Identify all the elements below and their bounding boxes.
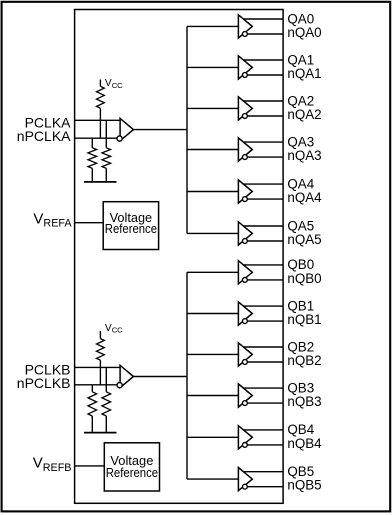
wire: VREFA to voltage reference A [75, 222, 104, 224]
wire: bus to driver QA1 [187, 66, 238, 68]
wire: QA0 true output [243, 18, 283, 20]
svg-text:nQA1: nQA1 [287, 66, 321, 81]
svg-text:nQB4: nQB4 [287, 436, 322, 451]
wire: bus to driver QA2 [187, 107, 238, 109]
output driver QB1 [238, 302, 252, 325]
output driver QB3 [238, 384, 252, 407]
svg-text:nQB0: nQB0 [287, 271, 321, 286]
wire: nQB0 inverted output [247, 279, 283, 281]
wire: QA1 true output [243, 59, 283, 61]
clock bus A [186, 26, 188, 233]
wire: nQA4 inverted output [247, 198, 283, 200]
wire: nQB3 inverted output [247, 402, 283, 404]
clock bus B [186, 272, 188, 479]
wire: nQA0 inverted output [247, 33, 283, 35]
wire: QA3 true output [243, 141, 283, 143]
output driver QA1 [238, 56, 252, 79]
wire: bus to driver QB0 [187, 271, 238, 273]
svg-text:nQA4: nQA4 [287, 190, 322, 205]
pull-up resistor (bank B) [97, 339, 105, 361]
output driver QA4 [238, 180, 252, 203]
wire: QB0 true output [243, 264, 283, 266]
inverting output bubble nQA1 [243, 73, 248, 78]
output driver QA2 [238, 97, 252, 120]
inverting output bubble nQB1 [243, 319, 248, 324]
inverting output bubble nQB4 [243, 443, 248, 448]
wire: QB3 true output [243, 387, 283, 389]
Vcc terminal (bank A) [99, 80, 101, 87]
wire: nQA1 inverted output [247, 74, 283, 76]
wire: left pull-down resistor to ground (bank A) [91, 168, 93, 182]
input buffer (bank A) [120, 118, 133, 140]
wire: bus to driver QA3 [187, 149, 238, 151]
inverting output bubble nQB3 [243, 401, 248, 406]
output driver QB5 [238, 468, 252, 491]
voltage reference block B [104, 443, 159, 491]
wire: bus to driver QA0 [187, 25, 238, 27]
wire: QA4 true output [243, 183, 283, 185]
wire: nQA3 inverted output [247, 156, 283, 158]
wire: nQB5 inverted output [247, 486, 283, 488]
inverting input bubble (bank B) [117, 383, 122, 388]
wire: pull-up resistor to n input line (bank A) [99, 108, 101, 138]
wire: bus to driver QA5 [187, 232, 238, 234]
wire: QB4 true output [243, 429, 283, 431]
wire: nPCLKA input line [75, 137, 118, 139]
ground (bank A) [84, 181, 117, 183]
pull-down resistor on PCLKB [102, 392, 111, 416]
inverting output bubble nQA5 [243, 239, 248, 244]
wire: nPCLKB input line [75, 384, 118, 386]
inverting input bubble (bank A) [117, 136, 122, 141]
wire: pull-up resistor to n input line (bank B) [99, 360, 101, 385]
wire: nPCLKB line down to pull-down resistor [91, 385, 93, 392]
wire: PCLKA line down to pull-down resistor [105, 120, 107, 148]
wire: bus to driver QB2 [187, 353, 238, 355]
wire: QA5 true output [243, 225, 283, 227]
wire: nQB4 inverted output [247, 444, 283, 446]
wire: VREFB to voltage reference B [75, 465, 105, 467]
svg-text:Reference: Reference [105, 221, 157, 236]
wire: QA2 true output [243, 100, 283, 102]
input buffer (bank B) [120, 365, 133, 387]
wire: nQB1 inverted output [247, 320, 283, 322]
wire: nPCLKA line down to pull-down resistor [91, 138, 93, 148]
wire: bus to driver QB1 [187, 313, 238, 315]
voltage reference block A [103, 202, 158, 250]
svg-text:nQB3: nQB3 [287, 394, 321, 409]
Vcc terminal (bank B) [99, 331, 101, 339]
wire: bus to driver QB3 [187, 395, 238, 397]
wire: right pull-down resistor to ground (bank A) [105, 168, 107, 182]
pull-down resistor on nPCLKA [88, 148, 97, 169]
svg-text:nQA0: nQA0 [287, 25, 321, 40]
svg-text:nQB1: nQB1 [287, 312, 321, 327]
svg-text:nPCLKA: nPCLKA [17, 128, 71, 144]
inverting output bubble nQA2 [243, 114, 248, 119]
pull-up resistor (bank A) [97, 86, 105, 108]
wire: nQB2 inverted output [247, 361, 283, 363]
wire: QB2 true output [243, 346, 283, 348]
wire: left pull-down resistor to ground (bank B) [91, 416, 93, 433]
inverting output bubble nQB2 [243, 360, 248, 365]
inverting output bubble nQA3 [243, 155, 248, 160]
wire: bus to driver QB5 [187, 478, 238, 480]
pull-down resistor on PCLKA [102, 148, 111, 169]
output driver QB4 [238, 426, 252, 449]
wire: nQA5 inverted output [247, 240, 283, 242]
wire: input buffer B output to clock bus B [133, 376, 187, 378]
svg-text:nQB5: nQB5 [287, 478, 321, 493]
wire: PCLKB input line [75, 366, 121, 368]
chip boundary box [75, 10, 284, 504]
output driver QB2 [238, 343, 252, 366]
svg-text:nQA2: nQA2 [287, 107, 321, 122]
wire: nQA2 inverted output [247, 115, 283, 117]
output driver QA3 [238, 138, 252, 161]
output driver QA0 [238, 15, 252, 38]
output driver QB0 [238, 261, 252, 284]
wire: bus to driver QA4 [187, 191, 238, 193]
svg-text:nQA5: nQA5 [287, 232, 321, 247]
svg-text:nQA3: nQA3 [287, 148, 321, 163]
wire: PCLKA input line [75, 119, 121, 121]
svg-text:Reference: Reference [106, 465, 158, 480]
wire: input buffer A output to clock bus A [133, 129, 187, 131]
wire: QB1 true output [243, 305, 283, 307]
output driver QA5 [238, 222, 252, 245]
inverting output bubble nQB5 [243, 484, 248, 489]
wire: PCLKB line down to pull-down resistor [105, 367, 107, 391]
svg-text:nQB2: nQB2 [287, 353, 321, 368]
pull-down resistor on nPCLKB [88, 392, 97, 416]
inverting output bubble nQA0 [243, 32, 248, 37]
wire: QB5 true output [243, 471, 283, 473]
wire: bus to driver QB4 [187, 436, 238, 438]
svg-text:nPCLKB: nPCLKB [17, 375, 71, 391]
inverting output bubble nQA4 [243, 197, 248, 202]
inverting output bubble nQB0 [243, 278, 248, 283]
ground (bank B) [84, 432, 117, 434]
wire: right pull-down resistor to ground (bank B) [105, 416, 107, 433]
